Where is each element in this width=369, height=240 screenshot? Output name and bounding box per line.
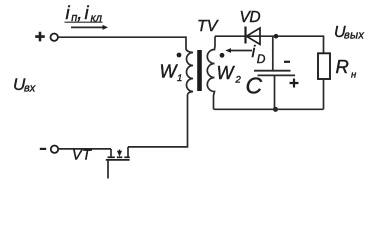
underline under current label <box>65 21 103 23</box>
label U_вх <box>13 75 36 95</box>
svg-text:C: C <box>246 73 263 99</box>
diode VD: cathode bar <box>244 27 246 44</box>
svg-text:н: н <box>351 70 357 81</box>
label W2 <box>217 63 242 86</box>
transistor VT gate electrode <box>106 159 130 161</box>
transistor VT channel dash 3 <box>124 156 130 158</box>
diode current arrow i_D <box>225 48 252 53</box>
svg-text:1: 1 <box>177 73 182 84</box>
plus sign of input <box>35 32 45 42</box>
capacitor C bottom plate <box>258 74 296 76</box>
svg-text:VD: VD <box>240 9 261 26</box>
svg-text:VT: VT <box>72 148 92 164</box>
input + terminal <box>51 34 58 41</box>
winding W2 polarity dot <box>220 53 225 58</box>
capacitor C lower lead <box>274 75 276 109</box>
winding W1 polarity dot <box>177 53 182 58</box>
label U_вых <box>334 24 364 42</box>
label R_н <box>336 56 358 81</box>
wire: top rail from + terminal, primary winding W1, down to transistor drain <box>58 37 193 147</box>
transformer core <box>197 50 202 91</box>
junction node on top rail <box>274 34 279 39</box>
resistor lower lead <box>323 79 325 109</box>
secondary bottom rail <box>214 108 324 110</box>
transistor VT drain contact tick <box>127 147 129 157</box>
current direction arrow <box>71 25 108 30</box>
transistor VT substrate arrow <box>117 150 122 157</box>
minus sign of input <box>40 148 46 150</box>
plus sign of capacitor <box>290 79 299 88</box>
input - terminal <box>51 146 58 153</box>
label i_D <box>252 42 266 66</box>
transistor VT gate lead <box>107 160 109 179</box>
wire: source lead from - terminal to transistor <box>58 148 111 150</box>
transistor VT source contact tick <box>110 149 112 157</box>
winding W2 with leads: up to diode rail, down to bottom rail <box>207 36 215 109</box>
capacitor C top plate <box>254 70 291 72</box>
diode VD: triangle (pointing left) <box>247 28 261 44</box>
svg-text:,: , <box>77 2 82 23</box>
capacitor C branch: upper lead <box>272 36 274 70</box>
svg-text:вых: вых <box>344 30 364 42</box>
svg-text:TV: TV <box>197 18 219 35</box>
svg-text:D: D <box>257 52 266 66</box>
svg-text:W: W <box>217 63 236 83</box>
svg-text:R: R <box>336 56 349 77</box>
minus sign of capacitor <box>284 61 290 63</box>
svg-text:2: 2 <box>235 75 242 86</box>
svg-text:вх: вх <box>24 83 36 95</box>
resistor R_H body <box>318 53 330 79</box>
junction node on bottom rail <box>273 107 278 112</box>
label W1 <box>160 62 183 85</box>
svg-text:W: W <box>160 62 179 82</box>
label i_п, i_кл <box>66 2 102 25</box>
transistor VT channel dash 1 <box>108 156 115 158</box>
transistor VT channel dash 2 <box>117 156 123 158</box>
wire: secondary top rail through diode to resistor branch <box>215 36 324 53</box>
